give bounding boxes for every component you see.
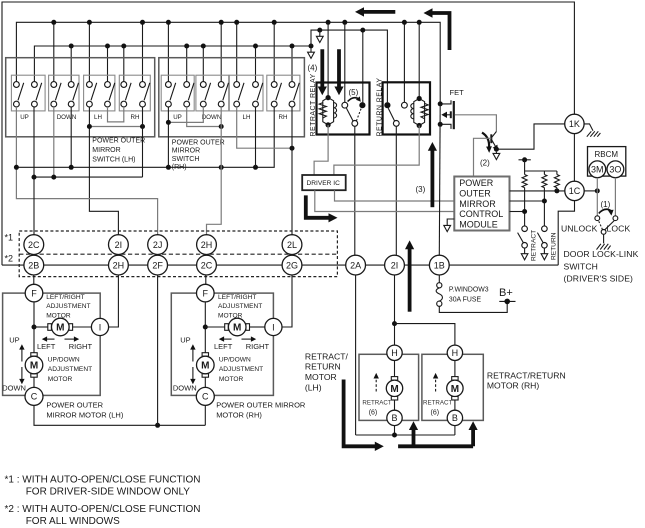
retract motor M5 (LH) <box>386 361 402 411</box>
svg-text:MOTOR: MOTOR <box>218 313 243 320</box>
svg-text:RETRACT/RETURN: RETRACT/RETURN <box>487 370 566 380</box>
arrows left/right (RH) <box>219 336 256 341</box>
wire I to 2H <box>109 275 119 327</box>
svg-text:MOTOR: MOTOR <box>219 376 244 383</box>
wire 1C to 3M column <box>584 190 597 192</box>
svg-text:MOTOR: MOTOR <box>46 313 71 320</box>
B+ terminal <box>499 300 515 302</box>
fuse P.WINDOW3 30A <box>436 283 489 307</box>
svg-text:1C: 1C <box>569 186 581 196</box>
svg-text:2J: 2J <box>153 240 163 250</box>
svg-text:RIGHT: RIGHT <box>69 342 93 351</box>
svg-text:H: H <box>391 348 398 358</box>
retract relay switch <box>342 96 366 126</box>
label POWER OUTER MIRROR SWITCH (LH) <box>92 138 145 164</box>
switch cell LH (RH panel) <box>229 75 263 111</box>
svg-text:2B: 2B <box>28 260 39 270</box>
svg-text:(DRIVER'S SIDE): (DRIVER'S SIDE) <box>564 274 634 284</box>
wire LH-panel LH-R to RH-L elbow <box>108 107 124 122</box>
wire RH-panel UP-R elbow <box>187 107 222 127</box>
connector 1B <box>429 255 449 275</box>
connector 2C <box>24 235 44 255</box>
wire bus2 drop RH-L <box>123 46 125 82</box>
wire module to retract column <box>510 211 525 213</box>
svg-text:SWITCH (LH): SWITCH (LH) <box>92 157 135 164</box>
connector 2F <box>148 255 168 275</box>
svg-text:LH: LH <box>243 114 251 121</box>
svg-text:FOR DRIVER-SIDE WINDOW ONLY: FOR DRIVER-SIDE WINDOW ONLY <box>26 486 191 497</box>
wire bus1 drop retract coil <box>327 22 329 95</box>
svg-text:(3): (3) <box>416 185 426 194</box>
wire bus1 drop RH DOWN-R <box>220 22 222 81</box>
junction dot Q2 out <box>494 147 499 152</box>
wire LH-panel UP-L vertical to 2J <box>16 107 157 235</box>
switch cell RH (LH panel) <box>119 75 150 111</box>
wire connector row line <box>2 264 558 266</box>
junction dots link <box>87 124 145 129</box>
junction dot elbow <box>166 120 171 125</box>
svg-text:F: F <box>31 288 37 298</box>
svg-text:2L: 2L <box>287 240 297 250</box>
svg-text:2A: 2A <box>350 260 361 270</box>
wire module to return column <box>510 200 545 202</box>
connector B (RH) <box>447 410 462 425</box>
wire bus1 drop return coil <box>418 22 420 96</box>
RH retract motor box <box>422 354 483 420</box>
wire retract switch common to 2A <box>354 126 356 255</box>
return switch S2 <box>537 226 547 260</box>
connector dashed box <box>19 231 337 277</box>
connector 3M <box>589 161 606 178</box>
svg-text:LEFT/RIGHT: LEFT/RIGHT <box>46 294 84 301</box>
wire LH-panel RH-R vertical <box>142 107 144 177</box>
svg-text:DOWN: DOWN <box>202 114 222 121</box>
svg-text:2F: 2F <box>152 260 163 270</box>
wire FET gate feed <box>455 115 497 132</box>
svg-text:M: M <box>233 323 241 334</box>
bold arrow mid up <box>405 240 414 311</box>
bold arrow bottom up pair <box>398 421 478 446</box>
wire bus1 drop retract contact <box>344 22 346 102</box>
svg-text:2I: 2I <box>115 240 123 250</box>
wire bus2 drop RH DOWN-L <box>202 46 204 82</box>
svg-text:(1): (1) <box>601 200 611 209</box>
svg-text:UP: UP <box>9 335 19 344</box>
return relay switch <box>384 102 407 126</box>
svg-text:POWER: POWER <box>459 178 494 188</box>
bold arrow bottom L <box>344 380 384 452</box>
labels RH adjustment motor <box>218 294 262 320</box>
connector 2J <box>148 235 168 255</box>
svg-text:(4): (4) <box>308 64 318 73</box>
svg-text:MIRROR: MIRROR <box>92 147 120 154</box>
wire LH-panel DOWN-R vertical <box>70 107 72 167</box>
wire FET column to 1B <box>438 104 441 255</box>
label RETRACT/RETURN MOTOR (RH) <box>487 370 566 390</box>
svg-text:POWER OUTER: POWER OUTER <box>46 401 103 410</box>
svg-text:POWER OUTER MIRROR: POWER OUTER MIRROR <box>216 401 306 410</box>
switch cell DOWN (RH panel) <box>196 75 229 111</box>
LH retract motor box <box>359 354 419 420</box>
svg-text:1B: 1B <box>434 260 445 270</box>
connector 2L <box>282 235 302 255</box>
wire C to bottom line <box>34 405 205 425</box>
svg-text:*1 : WITH AUTO-OPEN/CLOSE FUNC: *1 : WITH AUTO-OPEN/CLOSE FUNCTION <box>5 475 201 486</box>
ground 1K <box>587 131 601 136</box>
svg-text:MODULE: MODULE <box>459 219 498 229</box>
wire bus1 drop LH-L <box>88 22 90 81</box>
bold arrow (4) pair <box>318 49 344 95</box>
connector 2I bottom <box>385 255 405 275</box>
svg-text:M: M <box>30 361 38 372</box>
motor M1 left/right (LH) <box>48 318 73 336</box>
svg-text:(5): (5) <box>349 88 359 97</box>
svg-text:RETURN: RETURN <box>551 232 558 260</box>
wire dot to M1 <box>34 326 48 328</box>
resistor R3 <box>522 175 527 188</box>
wire module to 1C <box>510 190 565 192</box>
svg-text:SWITCH: SWITCH <box>172 156 200 163</box>
label DOOR LOCK-LINK SWITCH <box>564 249 639 284</box>
svg-text:*1: *1 <box>5 233 14 243</box>
wire F down through M2 to C <box>204 302 206 388</box>
svg-text:30A FUSE: 30A FUSE <box>449 297 482 304</box>
return relay coil R2 <box>411 96 428 128</box>
wire line B <box>34 176 143 178</box>
wire R3 down to retract switch <box>524 188 526 226</box>
svg-text:(LH): (LH) <box>305 382 322 392</box>
wire driver ic out2 to module <box>335 190 455 201</box>
motor M4 up/down (RH) <box>197 353 215 378</box>
wire RH-panel UP-L vertical <box>167 107 169 167</box>
wire RH-panel LH-L to RH-R link <box>237 107 292 148</box>
door lock-link switch S3 <box>595 209 618 234</box>
svg-text:M: M <box>201 361 209 372</box>
svg-text:2C: 2C <box>28 240 40 250</box>
svg-text:2G: 2G <box>286 260 298 270</box>
LH adjustment motor box <box>3 293 101 395</box>
wire 1K to ground <box>584 124 593 131</box>
wire bus1 drop DOWN-L <box>53 22 55 81</box>
svg-text:(6): (6) <box>431 409 440 416</box>
svg-text:B: B <box>391 413 397 423</box>
svg-text:MIRROR MOTOR (LH): MIRROR MOTOR (LH) <box>46 410 123 419</box>
svg-text:ADJUSTMENT: ADJUSTMENT <box>48 366 92 373</box>
svg-text:P.WINDOW3: P.WINDOW3 <box>449 287 489 294</box>
svg-text:B: B <box>452 413 458 423</box>
svg-text:UP/DOWN: UP/DOWN <box>48 357 80 364</box>
svg-text:LEFT: LEFT <box>37 342 56 351</box>
wire bus2 drop RH RH-R <box>291 46 293 82</box>
svg-text:UNLOCK: UNLOCK <box>561 224 598 234</box>
svg-text:UP: UP <box>20 114 29 121</box>
wire Q2 emitter to 1K <box>496 124 564 149</box>
bold arrow driver ic L <box>306 195 338 222</box>
wire 2B to F <box>33 275 35 284</box>
svg-text:F: F <box>203 288 209 298</box>
retract relay box <box>317 83 370 135</box>
connector I (LH) <box>91 318 108 335</box>
wire 3O to lock contact <box>614 178 616 216</box>
switch cell UP (RH panel) <box>161 75 194 111</box>
svg-text:UP/DOWN: UP/DOWN <box>219 357 251 364</box>
svg-text:C: C <box>202 392 209 402</box>
svg-text:ADJUSTMENT: ADJUSTMENT <box>219 366 263 373</box>
wire retract coil to driver ic <box>314 125 328 175</box>
wire Q2 base to module <box>474 138 492 176</box>
svg-text:DOOR LOCK-LINK: DOOR LOCK-LINK <box>564 249 639 259</box>
svg-text:2C: 2C <box>201 260 213 270</box>
wire return switch common to 2I <box>395 126 397 255</box>
FET Q1 <box>438 88 464 129</box>
arrows up/down (RH) <box>190 344 195 384</box>
wire M3 to I <box>250 326 265 328</box>
connector 2G <box>282 255 302 275</box>
bold arrow (3) <box>428 142 437 207</box>
svg-text:LH: LH <box>94 114 102 121</box>
RH adjustment motor box <box>171 293 273 395</box>
wire RH-panel DOWN-R to 2H <box>207 107 222 235</box>
wire RH-panel DOWN-L elbow <box>168 107 203 122</box>
arrows left/right (LH) <box>42 336 79 341</box>
svg-text:I: I <box>99 322 102 332</box>
connector C (LH) <box>25 387 43 405</box>
junction dots bus1 <box>51 20 421 25</box>
wire branch to RH H <box>395 324 455 346</box>
dashed arrow (LH) <box>374 373 379 392</box>
switch contacts and arms <box>14 82 295 107</box>
wire driver ic out1 to module <box>315 190 455 211</box>
wire 1B to fuse <box>438 275 440 283</box>
svg-text:(6): (6) <box>369 409 378 416</box>
svg-text:2I: 2I <box>391 260 399 270</box>
wire bus1 drop return contact <box>403 22 405 102</box>
junction dots line A <box>14 165 258 170</box>
footnote *1 <box>5 475 201 498</box>
wire 1C down to row line <box>558 201 574 266</box>
svg-text:CONTROL: CONTROL <box>459 209 503 219</box>
svg-text:MOTOR: MOTOR <box>48 376 73 383</box>
svg-text:RETURN: RETURN <box>305 362 341 372</box>
supply tick <box>519 159 531 161</box>
svg-text:M: M <box>390 384 398 395</box>
wire bus2 drop RH UP-R <box>186 46 188 82</box>
footnote *2 <box>5 504 201 527</box>
svg-text:MIRROR: MIRROR <box>459 199 496 209</box>
connector 2I top <box>109 235 129 255</box>
power outer mirror control module U2 <box>454 177 509 231</box>
wire 2I down to H circles <box>394 275 396 345</box>
switch cell DOWN (LH panel) <box>49 75 79 111</box>
wire F down through M2 to C <box>33 302 35 388</box>
labels LH adjustment motor <box>46 294 90 320</box>
wire fuse to B+ <box>439 301 507 312</box>
node continuation arrow below Q2 <box>495 152 497 154</box>
driver ic U1 <box>302 175 346 190</box>
svg-text:RETURN RELAY: RETURN RELAY <box>376 78 383 137</box>
wire RH-panel LH-R vertical <box>255 107 257 167</box>
wire 1K to 1C <box>573 134 575 182</box>
motor M3 left/right (RH) <box>225 318 250 336</box>
ground door lock-link <box>597 244 611 250</box>
svg-text:UP: UP <box>180 335 190 344</box>
connector dashed mid line <box>19 253 337 255</box>
svg-text:RIGHT: RIGHT <box>246 342 270 351</box>
svg-text:*2 : WITH AUTO-OPEN/CLOSE FUNC: *2 : WITH AUTO-OPEN/CLOSE FUNCTION <box>5 504 201 515</box>
svg-text:M: M <box>56 323 64 334</box>
svg-text:(2): (2) <box>480 159 490 168</box>
wire line A <box>16 107 274 167</box>
dashed arrow (RH) <box>433 373 438 392</box>
node continuation arrow (4) lower <box>310 49 312 53</box>
wire 2A down to motor bottom line <box>355 275 357 435</box>
wire 3M to unlock contact <box>596 178 598 216</box>
svg-text:M: M <box>451 384 459 395</box>
svg-text:SWITCH: SWITCH <box>564 261 599 271</box>
retract switch S1 <box>518 226 528 260</box>
label POWER OUTER MIRROR SWITCH (RH) <box>172 139 225 171</box>
svg-text:FOR ALL WINDOWS: FOR ALL WINDOWS <box>26 516 120 527</box>
RBCM box <box>588 147 626 177</box>
resistor R5 <box>554 175 559 188</box>
node continuation arrow (4) upper <box>319 30 321 36</box>
wire tick to resistor bar <box>525 160 557 175</box>
svg-text:RETRACT: RETRACT <box>362 400 391 407</box>
svg-text:MOTOR (RH): MOTOR (RH) <box>216 410 262 419</box>
svg-text:MOTOR (RH): MOTOR (RH) <box>487 381 539 391</box>
svg-text:RETRACT RELAY: RETRACT RELAY <box>310 73 317 136</box>
switch cell LH (LH panel) <box>84 75 115 111</box>
wire LH-panel DOWN-L vertical <box>53 107 55 177</box>
svg-text:RBCM: RBCM <box>595 150 619 159</box>
connector B (LH) <box>387 410 402 425</box>
connector F (LH) <box>25 284 43 302</box>
wire R4 down to return switch <box>543 188 545 226</box>
svg-text:ADJUSTMENT: ADJUSTMENT <box>218 303 262 310</box>
wire bus2 drop RH LH-R <box>255 46 257 82</box>
svg-text:RETRACT/: RETRACT/ <box>305 351 349 361</box>
wire bus1 drop RH LH-L <box>236 22 238 81</box>
svg-text:3O: 3O <box>609 165 621 175</box>
svg-text:RH: RH <box>279 114 288 121</box>
wire bus1 drop RH-R <box>142 22 144 81</box>
retract relay coil R1 <box>319 95 336 128</box>
wire bus1 <box>16 22 440 104</box>
wire I to 2G <box>282 275 292 327</box>
wire LH-panel UP-R vertical to 2C <box>33 107 35 235</box>
cell labels <box>20 114 287 121</box>
wire bus2 drop DOWN-R <box>70 46 72 82</box>
return relay box <box>383 82 430 134</box>
wire RH-panel RH-R to 2L <box>291 107 293 235</box>
connector F (RH) <box>197 284 215 302</box>
svg-text:POWER OUTER: POWER OUTER <box>172 139 225 146</box>
wire drop to retract relay closed contact <box>362 30 364 102</box>
svg-text:*2: *2 <box>5 254 14 264</box>
svg-text:2H: 2H <box>113 260 125 270</box>
wire 2C to F <box>205 275 207 284</box>
svg-text:FET: FET <box>450 88 465 97</box>
connector 2C bottom <box>197 255 217 275</box>
switch panel box LH <box>6 58 155 137</box>
motor M2 up/down (LH) <box>25 353 43 378</box>
wire return coil to driver ic <box>334 126 419 176</box>
svg-text:UP: UP <box>173 114 182 121</box>
wire module left stub to continuation arrow <box>447 219 454 225</box>
wire LH-panel LH-L vertical to 2I <box>89 107 118 235</box>
junction dots relay feed <box>317 28 365 33</box>
switch cell UP (LH panel) <box>11 75 45 111</box>
wire M1 to I <box>73 326 92 328</box>
svg-text:MOTOR: MOTOR <box>305 372 337 382</box>
wire 2F down <box>157 275 159 425</box>
connector H (RH) <box>447 345 462 360</box>
junction dot RH-R <box>290 146 295 151</box>
transistor Q2 <box>482 132 498 153</box>
svg-text:2H: 2H <box>201 240 213 250</box>
svg-text:RH: RH <box>131 114 140 121</box>
wire R5 down <box>556 188 558 191</box>
resistor R4 <box>542 175 547 188</box>
svg-text:1K: 1K <box>569 119 580 129</box>
connector 2B <box>24 255 44 275</box>
svg-text:LEFT/RIGHT: LEFT/RIGHT <box>218 294 256 301</box>
bold arrow top-right <box>424 8 450 50</box>
svg-text:RETRACT: RETRACT <box>423 400 452 407</box>
switch panel box RH <box>159 58 305 137</box>
connector 2A <box>346 255 366 275</box>
svg-text:RETRACT: RETRACT <box>531 230 538 261</box>
wire C (RH) down to bottom line <box>204 405 206 425</box>
svg-text:3M: 3M <box>591 165 604 175</box>
switch cell RH (RH panel) <box>267 75 300 111</box>
junction dot r3 <box>554 188 559 193</box>
wire bus1 drop RH RH-L <box>273 22 275 81</box>
wire LH-panel LH-L to RH-R link <box>89 126 142 128</box>
svg-text:DOWN: DOWN <box>2 384 26 393</box>
svg-text:C: C <box>31 392 38 402</box>
junction dots bus2 <box>69 44 314 49</box>
connector 1K <box>565 114 584 133</box>
wire dot to M1 (RH) <box>205 326 224 328</box>
svg-text:OUTER: OUTER <box>459 189 491 199</box>
svg-text:LEFT: LEFT <box>214 342 233 351</box>
connector 1C <box>565 181 584 200</box>
wire bus2 drop LH-R <box>107 46 109 82</box>
svg-text:H: H <box>452 348 459 358</box>
wire relay feed line <box>311 30 387 102</box>
label RETRACT/RETURN MOTOR (LH) <box>305 351 349 392</box>
wire B circles bottom line <box>356 426 455 435</box>
retract motor M6 (RH) <box>447 361 463 411</box>
svg-text:MIRROR: MIRROR <box>172 148 200 155</box>
svg-text:POWER OUTER: POWER OUTER <box>92 138 145 145</box>
junction dots line B <box>32 175 57 180</box>
svg-text:I: I <box>272 322 275 332</box>
connector C (RH) <box>196 387 214 405</box>
svg-text:DRIVER IC: DRIVER IC <box>307 180 341 187</box>
connector 3O <box>607 161 624 178</box>
connector 2H top <box>197 235 217 255</box>
svg-text:DOWN: DOWN <box>57 114 77 121</box>
connector H (LH) <box>387 345 402 360</box>
frame border top-left <box>2 2 574 265</box>
connector 2H bottom <box>109 255 129 275</box>
junction dot elbow2 <box>219 124 224 129</box>
wire bus2 <box>34 46 311 82</box>
svg-text:LOCK: LOCK <box>607 224 631 234</box>
arrows up/down (LH) <box>19 344 24 384</box>
